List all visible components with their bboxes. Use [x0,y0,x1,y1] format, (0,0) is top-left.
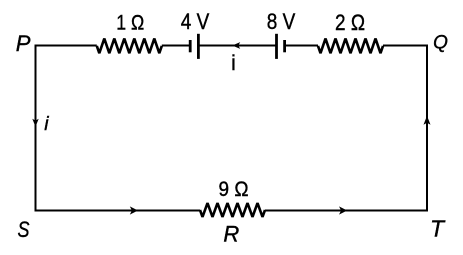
svg-text:8 V: 8 V [267,9,296,34]
svg-text:4 V: 4 V [181,9,210,34]
current label i (top) [231,52,236,75]
svg-text:T: T [430,216,446,242]
wire: resistor R to T [265,210,428,212]
battery V2 8V long plate [275,34,278,59]
battery V1 4V short plate [189,40,192,52]
current label i (left, italic) [44,113,49,135]
battery V2 8V short plate [283,40,286,52]
current arrow i (pointing down) on left wire [32,119,38,127]
node Q [433,33,448,54]
node P [16,31,31,56]
svg-text:9 Ω: 9 Ω [219,177,249,201]
battery V1 4V long plate [197,34,200,59]
node S [18,217,30,242]
value label 2 ohm [335,10,365,35]
wire: bottom S to resistor R [35,210,201,212]
resistor R2 2 ohm [318,39,383,54]
resistor R1 1 ohm [97,39,162,54]
svg-text:P: P [16,31,31,56]
wire: battery V2 to resistor R2 [285,45,318,47]
svg-text:Q: Q [433,33,448,54]
wire: battery V1 to battery V2 with current arrow [198,45,276,47]
resistor R 9 ohm [200,203,265,217]
value label 8 V [267,9,296,34]
svg-text:i: i [231,52,236,75]
wire: left side P to S [35,46,37,211]
node T [430,216,446,242]
current arrow (pointing up) on right wire [424,116,431,125]
svg-text:2 Ω: 2 Ω [335,10,365,35]
current arrow (pointing right) on bottom wire right of R [339,206,347,214]
value label 9 ohm [219,177,249,201]
svg-text:S: S [18,217,30,242]
value label 4 V [181,9,210,34]
svg-text:1 Ω: 1 Ω [116,12,144,35]
wire: resistor R1 to battery V1 [162,45,190,47]
svg-text:i: i [44,113,49,135]
svg-text:R: R [223,221,239,246]
reference label R (italic) [223,221,239,246]
current arrow i (pointing left) on top wire [232,42,240,49]
wire: right side T to Q [426,46,428,211]
wire: resistor R2 to Q [383,45,428,47]
wire: top P to resistor R1 [35,45,97,47]
value label 1 ohm [116,12,144,35]
current arrow (pointing right) on bottom wire left of R [130,206,138,214]
